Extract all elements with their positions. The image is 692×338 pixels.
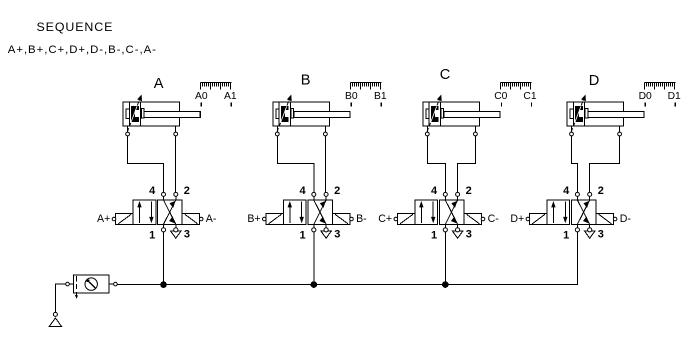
svg-text:D: D xyxy=(589,73,600,89)
sensor position mark C0 xyxy=(501,103,503,107)
svg-text:C+: C+ xyxy=(378,213,392,225)
svg-text:C1: C1 xyxy=(523,91,536,102)
svg-text:4: 4 xyxy=(299,185,306,197)
cylinder A left port stub xyxy=(127,126,129,132)
svg-text:3: 3 xyxy=(184,229,190,241)
valve C left position box (parallel arrows) xyxy=(415,200,438,224)
valve C right pneumatic pilot xyxy=(464,214,481,225)
valve B left position box (parallel arrows) xyxy=(283,200,306,224)
valve C port 4 connection xyxy=(443,192,447,196)
valve A left pneumatic pilot xyxy=(116,214,133,225)
cylinder A right port stub xyxy=(175,126,177,132)
svg-text:B0: B0 xyxy=(345,91,358,102)
double-acting cylinder D xyxy=(567,95,644,132)
valve B port 3 exhaust xyxy=(321,224,332,238)
valve D left position box (parallel arrows) xyxy=(547,200,570,224)
valve A port 4 connection xyxy=(162,192,166,196)
distance scale (ruler) for cylinder A xyxy=(201,83,232,90)
sensor position mark B1 xyxy=(380,103,382,107)
sensor position mark D0 xyxy=(644,103,646,107)
svg-text:A+: A+ xyxy=(97,213,110,225)
valve A port 2 connection xyxy=(174,192,178,196)
valve D port 1 connection xyxy=(576,224,578,227)
tube from intake to air service unit xyxy=(55,284,65,312)
tube from cylinder B right port to valve port 2 xyxy=(324,136,326,193)
cylinder C right port xyxy=(474,132,478,136)
air service unit right port xyxy=(114,282,118,286)
junction at valve C supply xyxy=(442,281,449,288)
cylinder C left port xyxy=(425,132,429,136)
svg-text:2: 2 xyxy=(598,185,604,197)
supply tube from valve C port 1 down xyxy=(444,232,446,285)
valve C right position box (crossed arrows) xyxy=(439,200,464,224)
main air supply line xyxy=(117,232,577,285)
valve B pilot port B+ xyxy=(263,217,267,221)
valve D right pneumatic pilot xyxy=(596,214,613,225)
double-acting cylinder A xyxy=(123,95,200,132)
cylinder A right port xyxy=(174,132,178,136)
svg-text:B+: B+ xyxy=(247,213,260,225)
svg-text:3: 3 xyxy=(466,229,472,241)
valve A left position box (parallel arrows) xyxy=(133,200,156,224)
tube from cylinder A right port to valve port 2 xyxy=(175,136,177,193)
valve D pilot port D- xyxy=(613,217,617,221)
distance scale (ruler) for cylinder B xyxy=(351,83,382,90)
supply tube from valve A port 1 down xyxy=(163,232,165,285)
valve C pilot port C+ xyxy=(394,217,398,221)
svg-text:D1: D1 xyxy=(668,91,681,102)
cylinder D left port stub xyxy=(571,126,573,132)
distance scale (ruler) for cylinder D xyxy=(645,83,676,90)
air service unit (compressed air supply) xyxy=(73,275,109,299)
svg-text:4: 4 xyxy=(149,185,156,197)
cylinder B right port stub xyxy=(324,126,326,132)
valve C pilot port C- xyxy=(481,217,485,221)
intake filter triangle xyxy=(49,318,62,327)
valve B right position box (crossed arrows) xyxy=(308,200,333,224)
svg-text:B: B xyxy=(301,73,311,89)
valve C port 3 exhaust xyxy=(452,224,463,238)
junction at valve A supply xyxy=(160,281,167,288)
svg-text:B1: B1 xyxy=(374,91,387,102)
tube from cylinder B left port to valve port 4 xyxy=(277,136,314,193)
tube from cylinder A left port to valve port 4 xyxy=(128,136,164,193)
svg-text:C: C xyxy=(440,67,451,83)
valve D port 2 connection xyxy=(588,192,592,196)
valve A right pneumatic pilot xyxy=(182,214,199,225)
svg-text:2: 2 xyxy=(334,185,340,197)
double-acting cylinder C xyxy=(423,95,500,132)
sensor position mark B0 xyxy=(350,103,352,107)
supply tube from valve D port 1 down xyxy=(576,232,578,285)
valve A pilot port A- xyxy=(199,217,203,221)
tube from cylinder D right port to valve port 2 xyxy=(590,136,620,193)
cylinder C left port stub xyxy=(426,126,428,132)
valve B right pneumatic pilot xyxy=(333,214,350,225)
distance scale (ruler) for cylinder C xyxy=(501,83,532,90)
sensor position mark A1 xyxy=(230,103,232,107)
junction at valve B supply xyxy=(311,281,318,288)
tube from cylinder C right port to valve port 2 xyxy=(458,136,476,193)
cylinder D right port xyxy=(618,132,622,136)
sensor position mark A0 xyxy=(200,103,202,107)
supply tube from valve B port 1 down xyxy=(313,232,315,285)
valve C port 2 connection xyxy=(456,192,460,196)
intake port xyxy=(53,312,57,316)
svg-text:3: 3 xyxy=(334,229,340,241)
svg-text:C0: C0 xyxy=(494,91,507,102)
cylinder C right port stub xyxy=(474,126,476,132)
svg-text:2: 2 xyxy=(466,185,472,197)
svg-text:1: 1 xyxy=(563,230,569,242)
tube from cylinder C left port to valve port 4 xyxy=(427,136,445,193)
valve C port 1 connection xyxy=(444,224,446,227)
valve A pilot port A+ xyxy=(112,217,116,221)
valve B left pneumatic pilot xyxy=(266,214,283,225)
tube from cylinder D left port to valve port 4 xyxy=(572,136,578,193)
svg-text:3: 3 xyxy=(598,229,604,241)
valve D port 4 connection xyxy=(575,192,579,196)
svg-text:D-: D- xyxy=(620,213,632,225)
valve A right position box (crossed arrows) xyxy=(158,200,183,224)
valve B port 4 connection xyxy=(312,192,316,196)
svg-text:D0: D0 xyxy=(639,91,652,102)
svg-text:A-: A- xyxy=(206,213,217,225)
svg-text:A1: A1 xyxy=(224,91,237,102)
svg-text:1: 1 xyxy=(299,230,305,242)
cylinder D left port xyxy=(570,132,574,136)
valve B pilot port B- xyxy=(350,217,354,221)
cylinder A left port xyxy=(126,132,130,136)
cylinder B left port stub xyxy=(276,126,278,132)
svg-text:A+,B+,C+,D+,D-,B-,C-,A-: A+,B+,C+,D+,D-,B-,C-,A- xyxy=(8,44,157,56)
svg-text:C-: C- xyxy=(488,213,500,225)
svg-text:2: 2 xyxy=(184,185,190,197)
valve D port 3 exhaust xyxy=(584,224,595,238)
svg-text:A: A xyxy=(154,76,164,92)
svg-text:SEQUENCE: SEQUENCE xyxy=(37,20,114,34)
cylinder D right port stub xyxy=(619,126,621,132)
valve A port 3 exhaust xyxy=(171,224,182,238)
valve D pilot port D+ xyxy=(526,217,530,221)
svg-text:B-: B- xyxy=(356,213,367,225)
valve B port 1 connection xyxy=(313,224,315,227)
valve B port 2 connection xyxy=(324,192,328,196)
valve A port 1 connection xyxy=(163,224,165,227)
sensor position mark C1 xyxy=(531,103,533,107)
cylinder B right port xyxy=(324,132,328,136)
svg-text:1: 1 xyxy=(149,230,155,242)
valve D left pneumatic pilot xyxy=(530,214,547,225)
cylinder B left port xyxy=(275,132,279,136)
valve C left pneumatic pilot xyxy=(398,214,415,225)
svg-text:A0: A0 xyxy=(195,91,208,102)
svg-text:1: 1 xyxy=(431,230,437,242)
svg-text:4: 4 xyxy=(563,185,570,197)
double-acting cylinder B xyxy=(273,95,350,132)
svg-text:D+: D+ xyxy=(510,213,524,225)
valve D right position box (crossed arrows) xyxy=(572,200,597,224)
svg-text:4: 4 xyxy=(431,185,438,197)
air service unit left port xyxy=(66,282,70,286)
sensor position mark D1 xyxy=(674,103,676,107)
